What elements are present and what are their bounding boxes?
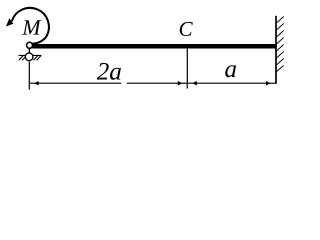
support link: [28, 48, 30, 53]
support hatching: [19, 55, 41, 60]
dimension line 2a (left part): [29, 82, 121, 84]
C extension line: [186, 48, 188, 88]
wall hatching: [277, 17, 284, 72]
label M: [22, 20, 42, 34]
label 2a: [97, 63, 121, 80]
label C: [180, 22, 193, 36]
dim arrow left (2a): [34, 81, 38, 86]
support ground line: [19, 54, 42, 56]
wall line: [275, 16, 277, 84]
moment arrowhead: [6, 18, 13, 26]
dim arrow left (a): [192, 81, 196, 86]
moment arc M: [12, 8, 49, 44]
label a: [225, 65, 236, 77]
roller circle: [25, 53, 33, 61]
pin hinge circle: [27, 42, 33, 48]
beam: [32, 44, 275, 49]
dim arrow right (2a): [178, 81, 182, 86]
dimension line a: [187, 82, 276, 84]
dim arrow right (a): [266, 81, 270, 86]
left extension line: [28, 62, 30, 90]
dimension line 2a (right part): [127, 82, 188, 84]
